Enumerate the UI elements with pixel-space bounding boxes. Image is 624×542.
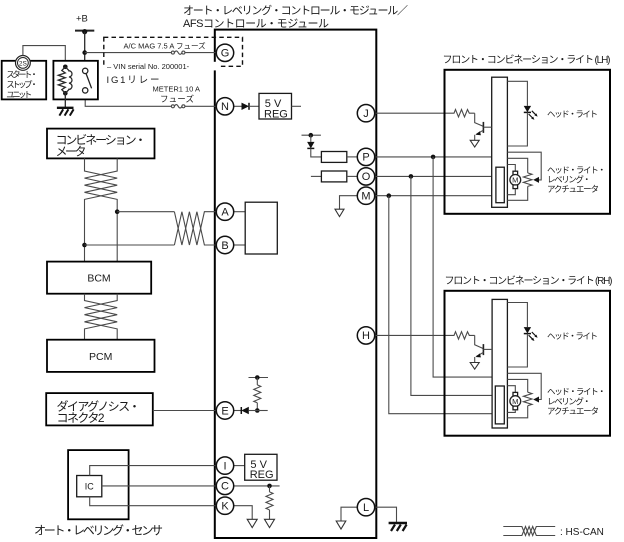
terminal J	[357, 105, 374, 122]
terminal O	[357, 168, 374, 185]
CAN transceiver block	[245, 202, 277, 254]
node on O wire	[409, 174, 414, 179]
terminal N	[216, 98, 233, 115]
svg-text:B: B	[221, 240, 228, 252]
wire K to ground arrow	[234, 506, 253, 520]
wire RH headlamp feed	[507, 303, 527, 328]
relay switch contacts	[83, 68, 92, 93]
ground arrow below K	[247, 519, 257, 527]
svg-text:H: H	[362, 330, 370, 342]
wire stub right of E node	[257, 410, 267, 412]
wire wiper feedback LH	[507, 152, 541, 180]
resistor R to O	[311, 171, 358, 182]
svg-text:G: G	[221, 48, 230, 60]
LED headlight LH	[524, 106, 538, 120]
svg-text:: HS-CAN: : HS-CAN	[560, 527, 604, 538]
LH lamp connector strip	[492, 77, 508, 207]
wire pot bottom RH	[507, 406, 527, 418]
svg-text:AFSコントロール・モジュール: AFSコントロール・モジュール	[183, 18, 329, 30]
pull-up rail above E	[249, 375, 269, 380]
svg-text:M: M	[512, 176, 518, 185]
wire 2S to relay coil	[23, 46, 65, 67]
terminal B	[216, 236, 233, 253]
wire relay coil to ground	[64, 93, 66, 107]
wire pot top LH	[507, 158, 527, 173]
wire I to regulator	[234, 465, 245, 467]
ground arrow LH transistor emitter	[470, 140, 479, 147]
svg-text:REG: REG	[264, 108, 288, 120]
diagnosis connector 2 box	[46, 393, 153, 425]
svg-text:コネクタ2: コネクタ2	[57, 411, 105, 425]
wire pot bottom LH	[507, 186, 527, 200]
transistor Q RH	[475, 335, 492, 362]
diode at N input	[234, 103, 259, 110]
svg-text:レベリング・: レベリング・	[547, 175, 591, 185]
svg-text:M: M	[512, 397, 518, 406]
ground arrow below C resistor	[265, 519, 275, 527]
resistor at LH transistor base	[452, 110, 475, 117]
wiper arrow RH	[533, 397, 539, 403]
chassis ground below relay	[57, 108, 74, 116]
svg-text:オート・レベリング・コントロール・モジュール／: オート・レベリング・コントロール・モジュール／	[183, 3, 408, 17]
twisted pair BCM to PCM	[85, 294, 118, 340]
+B power symbol	[75, 14, 94, 35]
dashed VIN option box	[104, 37, 243, 66]
wire fuse to terminal G	[185, 52, 217, 54]
terminal C	[216, 477, 233, 494]
wire LED return to connector	[507, 112, 527, 146]
wire M branch down to RH	[389, 196, 496, 414]
wire motor bottom RH	[507, 410, 515, 413]
svg-text:BCM: BCM	[87, 273, 110, 285]
internal supply rail above P	[302, 133, 321, 138]
wire LH headlamp feed	[507, 81, 527, 106]
ground arrow below L internal	[336, 521, 346, 529]
svg-text:– VIN serial No. 200001-: – VIN serial No. 200001-	[107, 62, 190, 71]
wiper arrow LH	[533, 177, 539, 183]
fuse METER1 10A	[171, 105, 185, 108]
svg-text:フロント・コンビネーション・ライト (LH): フロント・コンビネーション・ライト (LH)	[443, 54, 611, 66]
motor M LH	[510, 171, 521, 188]
start-stop unit box	[2, 61, 47, 100]
connector 2S circle	[16, 56, 31, 71]
motor M RH	[510, 392, 521, 409]
resistor C to ground	[266, 486, 273, 519]
svg-text:ストップ・: ストップ・	[6, 80, 38, 90]
ground arrow below M wire	[335, 209, 344, 216]
resistor pull-up at E	[254, 378, 261, 411]
wire tap to twist B	[85, 244, 175, 246]
svg-text:IC: IC	[85, 482, 95, 492]
terminal I	[216, 457, 233, 474]
node junction CAN-L tap	[82, 243, 87, 248]
wire O branch down to RH	[411, 176, 495, 395]
auto leveling sensor box	[68, 450, 129, 519]
terminal E	[216, 402, 233, 419]
wire L internal to ground arrow	[341, 507, 357, 521]
wire tap to twist A	[117, 211, 174, 213]
wire O to LH actuator connector	[375, 175, 496, 177]
wire H to RH light	[375, 334, 452, 336]
svg-text:ユニット: ユニット	[6, 90, 32, 100]
svg-text:K: K	[221, 501, 229, 513]
terminal M	[357, 187, 374, 204]
combination meter box	[47, 129, 155, 159]
svg-text:2S: 2S	[19, 60, 28, 67]
terminal P	[357, 148, 374, 165]
svg-text:レベリング・: レベリング・	[547, 396, 591, 406]
fuse A/C MAG 7.5A	[171, 51, 185, 54]
wire J to LH light	[375, 112, 452, 114]
svg-text:E: E	[221, 405, 228, 417]
svg-text:J: J	[363, 108, 369, 120]
svg-text:アクチュエータ: アクチュエータ	[547, 184, 599, 194]
wire node to fuse A/C MAG	[85, 52, 172, 54]
wire LED return RH	[507, 334, 527, 367]
LH front combination light box	[445, 70, 611, 214]
potentiometer track RH	[523, 392, 532, 406]
ground arrow RH transistor emitter	[470, 363, 479, 370]
terminal K	[216, 497, 233, 514]
svg-text:ヘッド・ライト・: ヘッド・ライト・	[547, 165, 606, 175]
LED headlight RH	[524, 327, 538, 341]
BCM box	[47, 262, 151, 294]
PCM box	[47, 340, 155, 372]
label VIN serial	[105, 62, 219, 71]
resistor at RH transistor base	[452, 332, 475, 339]
svg-text:スタート・: スタート・	[6, 70, 38, 80]
svg-text:オート・レベリング・センサ: オート・レベリング・センサ	[34, 524, 163, 538]
svg-text:フューズ: フューズ	[160, 94, 194, 104]
svg-text:A/C MAG 7.5 A フューズ: A/C MAG 7.5 A フューズ	[124, 41, 207, 51]
svg-text:I: I	[223, 460, 226, 472]
node on C wire	[267, 484, 272, 489]
relay coil (resistor + inductor in parallel)	[58, 65, 72, 96]
node on M wire	[387, 193, 392, 198]
5V regulator box top	[259, 93, 301, 120]
wire resistor to P	[347, 156, 358, 158]
module title text	[183, 3, 408, 30]
RH lamp connector strip	[492, 299, 507, 428]
terminal H	[357, 327, 374, 344]
svg-text:+B: +B	[76, 14, 88, 25]
twisted pair meter to BCM	[85, 158, 118, 261]
svg-text:C: C	[221, 481, 229, 493]
svg-text:メータ: メータ	[56, 144, 87, 158]
node at E diode	[255, 408, 260, 413]
chassis ground at L	[389, 523, 407, 531]
svg-text:P: P	[362, 152, 369, 164]
terminal L	[357, 499, 374, 516]
svg-text:アクチュエータ: アクチュエータ	[547, 406, 599, 416]
wire C to divider node	[234, 485, 280, 487]
wire motor top RH	[507, 386, 515, 393]
wire M to LH actuator connector	[375, 195, 496, 197]
wire P to LH connector	[375, 156, 492, 158]
wire pot top RH	[507, 379, 527, 392]
svg-text:A: A	[221, 207, 229, 219]
HS-CAN legend twisted pair	[503, 527, 555, 536]
wire L external to chassis ground	[375, 507, 397, 522]
svg-text:ヘッド・ライト: ヘッド・ライト	[547, 109, 598, 119]
wire M to internal ground arrow	[340, 196, 358, 210]
node junction CAN-H tap	[115, 209, 120, 214]
wire wiper feedback RH	[507, 373, 541, 399]
terminal G	[216, 44, 233, 61]
IC box	[77, 476, 102, 497]
svg-text:O: O	[362, 171, 371, 183]
potentiometer track LH	[523, 173, 532, 187]
RH actuator connector	[495, 386, 504, 424]
resistor R to P	[321, 152, 346, 163]
zener diode to P resistor	[307, 135, 321, 157]
wire +B down to relay switch	[84, 32, 86, 71]
svg-text:ヘッド・ライト・: ヘッド・ライト・	[547, 387, 606, 397]
module box: auto leveling control module	[215, 30, 376, 538]
svg-text:METER1 10 A: METER1 10 A	[153, 85, 201, 94]
svg-text:フロント・コンビネーション・ライト (RH): フロント・コンビネーション・ライト (RH)	[445, 275, 613, 287]
wire B to transceiver block	[234, 244, 246, 246]
node junction on +B feed	[82, 50, 87, 55]
5V regulator box bottom	[245, 454, 277, 481]
wire A to transceiver block	[234, 211, 246, 213]
terminal A	[216, 203, 233, 220]
node on P wire	[431, 155, 436, 160]
wire motor top LH	[507, 165, 515, 172]
label RH actuator	[547, 387, 606, 416]
wire P branch down to RH	[433, 157, 492, 377]
wire IC to terminal C	[102, 485, 217, 487]
label LH actuator	[547, 165, 606, 194]
RH front combination light box	[445, 291, 611, 436]
svg-text:ヘッド・ライト: ヘッド・ライト	[547, 331, 598, 341]
wire IC to terminal I	[90, 466, 217, 476]
wire diagnosis to terminal E	[153, 410, 217, 412]
twisted pair to terminals A and B	[174, 212, 216, 245]
LH actuator connector	[496, 167, 504, 203]
transistor Q LH	[475, 113, 492, 140]
diode at E pointing to terminal	[234, 407, 257, 414]
svg-text:PCM: PCM	[89, 351, 112, 363]
svg-text:M: M	[361, 191, 370, 203]
svg-text:N: N	[221, 101, 229, 113]
wire relay switch to METER1 fuse	[85, 93, 171, 106]
svg-text:L: L	[363, 502, 369, 514]
wire motor bottom LH	[507, 189, 515, 195]
svg-text:REG: REG	[250, 469, 274, 481]
wire IC to terminal K	[90, 497, 217, 506]
IG1 relay box	[53, 61, 98, 100]
wire fuse to terminal N	[185, 105, 217, 107]
